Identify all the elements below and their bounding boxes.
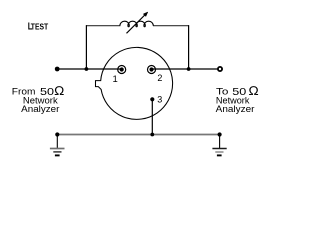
junction bottom right bbox=[218, 132, 222, 136]
label From 50 ohm Network Analyzer bbox=[12, 84, 65, 115]
wire left riser bbox=[85, 25, 87, 69]
wire top-right segment bbox=[153, 25, 189, 27]
pin 3 dot bbox=[150, 97, 154, 101]
node right terminal ring bbox=[218, 67, 222, 71]
wire pin 3 to bottom bus bbox=[151, 99, 153, 134]
wire from pin 2 to right terminal bbox=[152, 68, 220, 70]
wire from left terminal to pin 1 bbox=[57, 68, 122, 70]
label Ltest bbox=[28, 21, 48, 33]
svg-text:2: 2 bbox=[157, 73, 162, 83]
ground symbol left bars bbox=[50, 149, 65, 156]
inductor variable arrow shaft bbox=[127, 15, 145, 33]
pin 2 center dot bbox=[149, 67, 153, 71]
junction right riser bbox=[187, 67, 191, 71]
wire top-left segment bbox=[86, 25, 120, 27]
node left terminal dot bbox=[55, 67, 60, 72]
connector U1 body circle with key notch bbox=[96, 47, 173, 119]
wire bottom ground bus bbox=[57, 134, 219, 136]
pin 1 center dot bbox=[120, 67, 124, 71]
svg-text:Analyzer: Analyzer bbox=[216, 104, 256, 115]
svg-text:1: 1 bbox=[113, 74, 118, 85]
svg-text:3: 3 bbox=[157, 95, 162, 105]
ground symbol right bars bbox=[212, 149, 226, 156]
ground symbol right stub bbox=[219, 135, 221, 149]
wire right riser bbox=[188, 25, 190, 69]
svg-text:Analyzer: Analyzer bbox=[21, 104, 60, 115]
ground symbol left stub bbox=[56, 135, 58, 149]
junction pin 3 to bus bbox=[150, 133, 154, 137]
pin 1 outer ring bbox=[118, 66, 126, 74]
label To 50 ohm Network Analyzer bbox=[216, 84, 259, 115]
inductor Ltest coil bbox=[120, 21, 153, 26]
pin 2 outer ring bbox=[148, 66, 156, 74]
svg-text:TEST: TEST bbox=[31, 23, 48, 32]
junction bottom left bbox=[55, 132, 59, 136]
junction left riser bbox=[85, 67, 89, 71]
inductor variable arrow head bbox=[143, 12, 148, 17]
svg-text:Ω: Ω bbox=[249, 84, 259, 98]
